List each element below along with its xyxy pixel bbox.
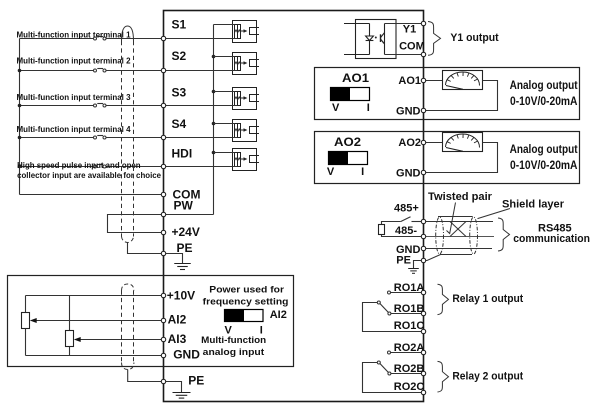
svg-text:Power used for: Power used for	[209, 284, 284, 295]
svg-text:I: I	[367, 102, 370, 114]
shield tube lines	[438, 216, 473, 218]
svg-text:S1: S1	[172, 17, 187, 31]
terminal circle left y194.5	[161, 192, 165, 196]
terminal circle AO1	[421, 78, 425, 82]
contact RO2A	[388, 351, 391, 354]
svg-text:Shield layer: Shield layer	[502, 198, 565, 210]
terminal circle 485-	[421, 234, 425, 238]
wire PE ground rs485	[414, 261, 422, 269]
svg-text:AO1: AO1	[342, 73, 370, 85]
svg-text:PE: PE	[177, 241, 193, 255]
wire input S1	[20, 37, 164, 39]
wire AO2 to meter	[424, 142, 444, 144]
svg-text:485+: 485+	[394, 203, 419, 215]
shield capsule left	[436, 217, 444, 254]
relay blade RO1B	[380, 304, 388, 313]
analog shield capsule	[122, 284, 134, 370]
switch AO2 V/I	[329, 152, 349, 165]
terminal circle left y320.5	[161, 318, 165, 322]
svg-text:RO1C: RO1C	[394, 320, 425, 332]
terminal circle RO1C	[421, 329, 425, 333]
switch contact S2	[94, 69, 97, 72]
junction bus-HDI	[18, 165, 22, 169]
terminal circle left y339.5	[161, 337, 165, 341]
optocoupler S3 input	[233, 88, 260, 110]
svg-text:S4: S4	[172, 117, 187, 131]
svg-text:PE: PE	[396, 255, 411, 267]
svg-text:AI2: AI2	[270, 309, 287, 321]
left input bus	[19, 39, 21, 195]
resistor R terminator	[379, 225, 385, 235]
terminal circle left y253.5	[161, 251, 165, 255]
junction opto-bus HDI	[212, 151, 216, 155]
terminal circle GNDr	[421, 246, 425, 250]
meter AO1	[443, 71, 483, 90]
svg-text:Analog output: Analog output	[510, 80, 578, 92]
svg-text:AO2: AO2	[334, 137, 361, 149]
svg-text:Multi-function input terminal: Multi-function input terminal 1	[17, 30, 131, 40]
svg-text:PE: PE	[188, 373, 204, 387]
svg-text:AI2: AI2	[168, 313, 187, 327]
pointer shield layer	[478, 209, 511, 219]
terminal circle RO1A	[421, 290, 425, 294]
contact RO2B	[388, 372, 391, 375]
switch contact S4	[94, 136, 97, 139]
svg-text:Multi-function input terminal: Multi-function input terminal 3	[17, 92, 131, 102]
wire COM from bus	[20, 194, 164, 196]
svg-text:communication: communication	[513, 233, 590, 245]
svg-text:Multi-function: Multi-function	[201, 335, 266, 346]
terminal circle left y214.5	[161, 212, 165, 216]
svg-text:I: I	[361, 166, 364, 178]
svg-text:GND: GND	[396, 105, 421, 117]
switch contact HDI	[94, 165, 97, 168]
terminal circle AO2	[421, 140, 425, 144]
terminal circle PEr	[421, 258, 425, 262]
svg-text:HDI: HDI	[172, 147, 193, 161]
switch contact S3	[94, 104, 97, 107]
svg-text:GND: GND	[396, 167, 421, 179]
wire PE to ground	[164, 254, 183, 264]
svg-text:Twisted pair: Twisted pair	[428, 191, 493, 203]
wire 485+ to twisted pair	[424, 221, 494, 223]
wire opto lead S3	[214, 91, 235, 93]
ground at rs485 PE	[408, 269, 419, 274]
wire terminal into opto S4	[164, 137, 238, 139]
potentiometer P1	[25, 296, 27, 313]
wire RO1B	[391, 313, 424, 315]
terminal circle RO2A	[421, 350, 425, 354]
wire 485-	[382, 235, 424, 237]
svg-text:S3: S3	[172, 86, 187, 100]
svg-text:AI3: AI3	[168, 332, 187, 346]
AO2 box	[315, 132, 580, 184]
svg-text:V: V	[332, 102, 340, 114]
terminal circle left y355.5	[161, 353, 165, 357]
wire AO1 to meter	[424, 80, 444, 82]
svg-text:analog input: analog input	[203, 347, 265, 358]
brace relay2	[438, 361, 449, 392]
svg-text:AO1: AO1	[398, 75, 421, 87]
svg-text:+24V: +24V	[172, 225, 200, 239]
wire opto lead HDI	[214, 152, 235, 154]
switch AI2 V/I	[225, 310, 245, 322]
svg-text:Y1: Y1	[403, 24, 416, 36]
svg-text:Multi-function input terminal: Multi-function input terminal 2	[17, 56, 131, 66]
wire terminal into opto S2	[164, 70, 238, 72]
terminal circle RO1B	[421, 311, 425, 315]
wire COM lead	[385, 54, 424, 56]
wire PW to internal bus	[164, 214, 214, 216]
wire input S3	[20, 104, 164, 106]
wire terminal into opto HDI	[164, 166, 238, 168]
contact RO1B	[388, 312, 391, 315]
junction opto-bus S3	[212, 90, 216, 94]
wire opto lead S1	[214, 24, 235, 26]
wire input S2	[20, 69, 164, 71]
optocoupler U-Y1	[344, 20, 396, 59]
optocoupler S1 input	[233, 21, 260, 43]
terminal circle Y1	[421, 21, 425, 25]
shield capsule right	[470, 217, 478, 254]
contact RO1A	[388, 291, 391, 294]
junction bus-S3	[18, 104, 22, 108]
terminal circle 485+	[421, 219, 425, 223]
wire 485+ with switch	[382, 217, 424, 225]
svg-text:High speed pulse input and ope: High speed pulse input and open	[17, 160, 141, 170]
wire opto lead S2	[214, 56, 235, 58]
svg-text:RO2C: RO2C	[394, 381, 425, 393]
junction opto-bus S2	[212, 55, 216, 59]
terminal circle left y232.5	[161, 230, 165, 234]
brace RS485	[498, 218, 510, 251]
switch AO1 V/I	[331, 88, 351, 101]
wire input S4	[20, 136, 164, 138]
wire 485- to twisted pair	[424, 236, 495, 238]
wire terminal into opto S1	[164, 38, 238, 40]
switch contact S1	[94, 37, 97, 40]
wire pivot loop to RO1C	[363, 303, 424, 332]
terminal circle RO2C	[421, 390, 425, 394]
wire opto lead S4	[214, 123, 235, 125]
terminal circle left y38.5	[161, 36, 165, 40]
terminal circle left y105.5	[161, 103, 165, 107]
terminal circle left y137.5	[161, 135, 165, 139]
analog shield drain to PE	[128, 370, 164, 382]
wire PW loop to +24V	[108, 215, 164, 233]
twist crossing	[450, 222, 466, 237]
terminal circle COM	[421, 52, 425, 56]
wire Y1 lead	[385, 23, 424, 25]
shield drain wire to PE	[128, 243, 164, 254]
terminal circle GND AO1	[421, 108, 425, 112]
svg-text:S2: S2	[172, 49, 187, 63]
meter AO2	[443, 133, 483, 152]
optocoupler HDI input	[233, 149, 260, 171]
ground at bottom PE	[173, 393, 191, 399]
ground at PE	[174, 264, 191, 270]
input shield capsule	[122, 26, 134, 243]
terminal circle left y70.5	[161, 68, 165, 72]
wire bottom PE to ground	[164, 382, 182, 393]
svg-text:Analog output: Analog output	[510, 144, 578, 156]
svg-text:Relay 2 output: Relay 2 output	[452, 371, 523, 383]
svg-text:Y1 output: Y1 output	[450, 32, 499, 44]
svg-text:AO2: AO2	[398, 137, 421, 149]
optocoupler S2 input	[233, 53, 260, 75]
internal opto bus	[213, 25, 215, 215]
terminal circle left y166.5	[161, 164, 165, 168]
svg-text:485-: 485-	[395, 225, 417, 237]
relay blade RO2B	[380, 364, 388, 373]
terminal circle left y381.5	[161, 379, 165, 383]
wire AI2 with wiper arrow	[36, 320, 164, 322]
relay pivot	[377, 361, 380, 364]
terminal circle left y295.5	[161, 293, 165, 297]
wire +10V	[26, 295, 164, 297]
svg-text:collector input are available: collector input are available for choice	[17, 170, 161, 180]
AO1 box	[315, 68, 580, 120]
drive main box	[164, 11, 424, 402]
svg-text:V: V	[327, 166, 335, 178]
junction bus-S2	[18, 69, 22, 73]
relay pivot	[377, 301, 380, 304]
junction bus-S4	[18, 136, 22, 140]
wire GND analog	[26, 355, 164, 357]
brace relay1	[438, 284, 449, 314]
wire PE to shield	[424, 255, 441, 261]
svg-text:COM: COM	[399, 40, 425, 52]
svg-text:+10V: +10V	[167, 289, 195, 303]
svg-text:Multi-function input terminal: Multi-function input terminal 4	[17, 124, 131, 134]
wire RO1A	[391, 292, 424, 294]
svg-text:PW: PW	[174, 199, 194, 213]
svg-text:Relay 1 output: Relay 1 output	[452, 293, 523, 305]
optocoupler S4 input	[233, 120, 260, 142]
brace Y1 output	[428, 22, 441, 56]
wire GND to twisted pair	[424, 248, 493, 250]
wire AI3 with wiper arrow	[80, 339, 164, 341]
wire pivot loop to RO2C	[363, 363, 424, 393]
analog input box	[8, 276, 294, 367]
wire RO2B	[391, 373, 424, 375]
terminal circle GND AO2	[421, 170, 425, 174]
svg-text:GND: GND	[173, 348, 200, 362]
wire meter loop to GND	[424, 81, 498, 111]
junction opto-bus S4	[212, 122, 216, 126]
svg-text:0-10V/0-20mA: 0-10V/0-20mA	[510, 96, 578, 108]
terminal circle RO2B	[421, 371, 425, 375]
svg-text:0-10V/0-20mA: 0-10V/0-20mA	[510, 160, 578, 172]
potentiometer P2	[69, 296, 71, 331]
wire input HDI	[20, 165, 164, 167]
wire terminal into opto S3	[164, 105, 238, 107]
wire RO2A	[391, 352, 424, 354]
svg-text:frequency setting: frequency setting	[203, 296, 289, 307]
wire meter loop to GND	[424, 143, 498, 173]
pointer twisted pair	[447, 203, 456, 234]
